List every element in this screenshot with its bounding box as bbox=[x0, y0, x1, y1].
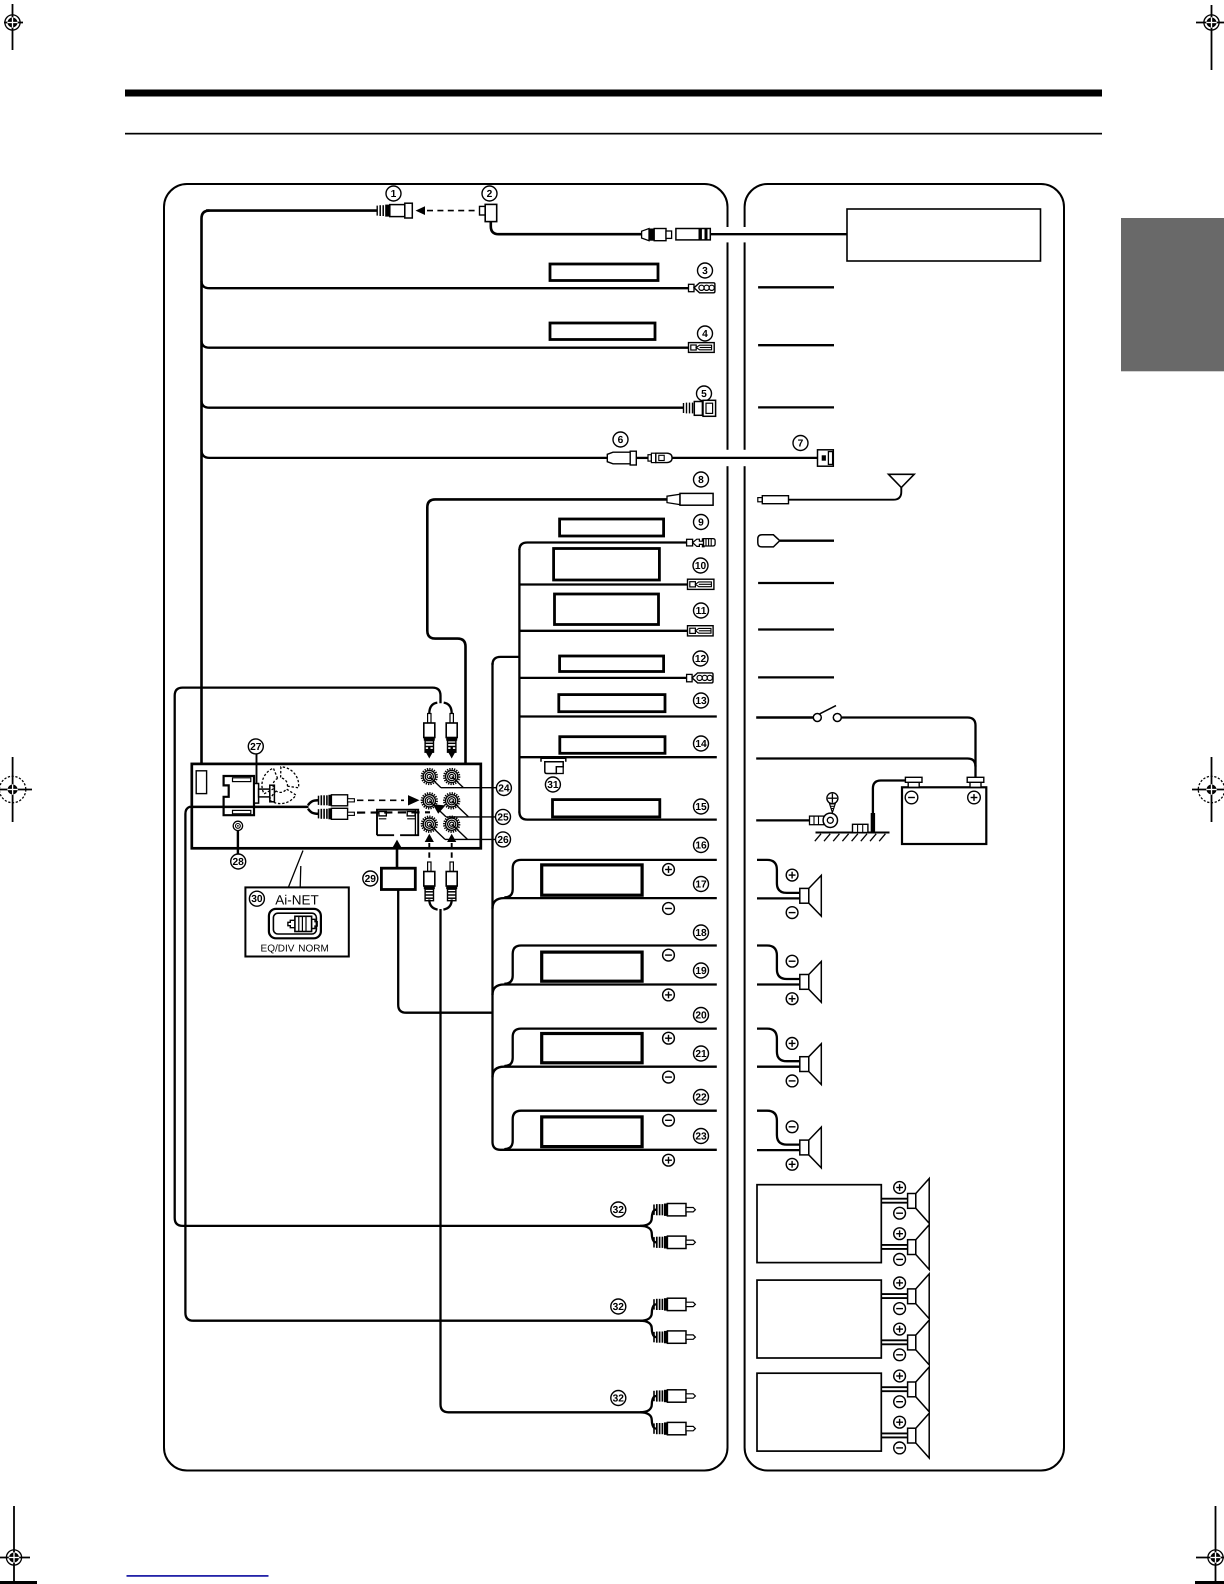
svg-text:Ai-NET: Ai-NET bbox=[275, 893, 319, 908]
wire 5 bbox=[202, 401, 684, 408]
arrow: cable 29 into socket bbox=[392, 840, 401, 870]
label 5 bbox=[697, 386, 712, 401]
connector: CD-changer plug head bbox=[270, 785, 275, 802]
polarity + amp 1 spk 1 bbox=[894, 1182, 906, 1194]
speaker: amp 3 spk 1 bbox=[908, 1367, 930, 1412]
pointer lines to label 24 bbox=[429, 777, 496, 788]
svg-text:24: 24 bbox=[498, 783, 510, 794]
dashed arrow: lower plug to jack 25R bbox=[357, 804, 446, 813]
label 15 bbox=[694, 799, 709, 814]
wire: constant power to battery + bbox=[756, 759, 975, 767]
wire: ignition lead to switch bbox=[756, 716, 813, 719]
speaker 2 bbox=[800, 962, 822, 1003]
footer corner bar left bbox=[0, 1581, 37, 1584]
wire: bus jog to speaker spine bbox=[493, 657, 520, 665]
connector 9: bullet male bbox=[687, 539, 716, 547]
polarity - speaker 2 bbox=[786, 955, 798, 967]
label 23 bbox=[694, 1129, 709, 1144]
box: Ai-NET detail 30 bbox=[245, 887, 348, 956]
wire: speaker pair 19 top bbox=[504, 946, 717, 984]
dashed arrow: upper plug to jack 25L bbox=[357, 795, 420, 805]
svg-text:16: 16 bbox=[695, 840, 707, 851]
svg-text:7: 7 bbox=[798, 438, 804, 449]
jack: RCA row 24 col 2 bbox=[444, 769, 459, 784]
pointer lines to label 25 bbox=[429, 801, 495, 817]
connector: output 1 RCA lower bbox=[654, 1236, 695, 1248]
box: item 29 cable box bbox=[381, 868, 415, 889]
wire: speaker pair 19 bottom bbox=[493, 985, 717, 996]
wire: output 1 Y-split bbox=[640, 1210, 656, 1243]
polarity - amp 2 spk 1 bbox=[894, 1303, 906, 1315]
svg-text:11: 11 bbox=[696, 606, 707, 617]
wire: speaker pair 17 top bbox=[504, 860, 717, 898]
polarity - speaker 4 bbox=[786, 1121, 798, 1133]
polarity + speaker 1 bbox=[786, 869, 798, 881]
wire: bus vertical V1 bbox=[518, 549, 520, 813]
jack: RCA row 24 col 1 bbox=[422, 769, 437, 784]
ring terminal bbox=[810, 813, 838, 827]
svg-text:14: 14 bbox=[695, 739, 707, 750]
wire: speaker pair 17 bottom bbox=[493, 898, 717, 909]
connector 7: vehicle power plug bbox=[818, 450, 834, 466]
box: item 4 label box bbox=[550, 323, 655, 340]
wire 4 bbox=[202, 341, 691, 348]
label 21 bbox=[694, 1046, 709, 1061]
wire 12 bbox=[519, 677, 687, 679]
wire: amp 3 speaker 2 pair bbox=[881, 1433, 907, 1437]
connector 1: antenna socket bbox=[377, 203, 412, 218]
connector: changer RCA plug upper bbox=[319, 795, 355, 806]
wire 8: to head unit bbox=[427, 499, 667, 764]
wire: speaker pair 23 top bbox=[504, 1111, 717, 1149]
wire 14 bbox=[519, 756, 716, 758]
label 4 bbox=[698, 326, 713, 341]
footer blue link line bbox=[127, 1575, 269, 1577]
label 29 bbox=[363, 871, 378, 886]
connector: CD-changer plug bar bbox=[254, 784, 258, 804]
label 10 bbox=[693, 558, 708, 573]
box: amplifier 3 bbox=[757, 1373, 881, 1451]
border gap at power lead bbox=[724, 450, 732, 466]
polarity + of wire 19 bbox=[663, 989, 675, 1001]
box: speaker 21 label box bbox=[542, 1034, 642, 1063]
svg-text:27: 27 bbox=[250, 742, 262, 753]
dashed leads: plugs to jacks 26 bbox=[429, 843, 451, 862]
polarity - amp 3 spk 2 bbox=[894, 1442, 906, 1454]
wire: output cable 1 (row 24) bbox=[175, 688, 644, 1226]
speaker: amp 1 spk 1 bbox=[908, 1179, 930, 1224]
label 28 bbox=[231, 854, 246, 869]
wire: speaker pair 21 bottom bbox=[493, 1067, 717, 1078]
speaker 1 bbox=[800, 875, 822, 916]
connector: plug below jack 26L bbox=[424, 862, 435, 901]
head unit cooling fan bbox=[262, 767, 299, 804]
wire: speaker 1 - lead bbox=[757, 897, 800, 899]
wire: ground lead bbox=[756, 819, 810, 821]
connector 12: bullet terminal bbox=[687, 673, 713, 683]
polarity - of wire 19 bbox=[663, 949, 675, 961]
arrow: plug into jack 24R bbox=[447, 747, 456, 759]
stub: vehicle lead A bbox=[758, 582, 834, 584]
label 9 bbox=[694, 515, 709, 530]
wire: output 3 Y-split bbox=[640, 1396, 656, 1429]
connector: vehicle antenna plug bbox=[758, 496, 789, 504]
jack: RCA row 25 col 2 bbox=[444, 793, 459, 808]
wire: antenna lead from plug 2 bbox=[491, 222, 642, 235]
pointer lines to label 26 bbox=[429, 824, 495, 839]
jack: RCA row 26 col 1 bbox=[422, 817, 437, 832]
svg-text:13: 13 bbox=[695, 696, 707, 707]
page margin grey tab bbox=[1121, 218, 1224, 371]
polarity - of wire 17 bbox=[663, 903, 675, 915]
box: item 3 label box bbox=[550, 264, 658, 281]
box: item 12 label box bbox=[560, 656, 664, 672]
box: item 9 label box bbox=[560, 519, 664, 536]
svg-text:19: 19 bbox=[695, 966, 707, 977]
svg-text:9: 9 bbox=[698, 517, 704, 528]
label 14 bbox=[694, 736, 709, 751]
wire 6 bbox=[202, 450, 609, 458]
label 1 bbox=[386, 186, 401, 201]
svg-text:30: 30 bbox=[251, 894, 263, 905]
polarity + amp 3 spk 1 bbox=[894, 1370, 906, 1382]
battery terminal post - bbox=[905, 777, 922, 787]
label 11 bbox=[694, 603, 709, 618]
connector 2: antenna plug (L-shape) bbox=[480, 204, 497, 221]
polarity - amp 2 spk 2 bbox=[894, 1349, 906, 1361]
wire: output cable 2 (row 25) bbox=[185, 807, 643, 1321]
wire: speaker 3 - lead bbox=[757, 1066, 800, 1068]
connector: output 1 RCA upper bbox=[654, 1204, 695, 1216]
wire 11 bbox=[519, 630, 688, 632]
wire 13 bbox=[519, 715, 716, 717]
connector 5: power plug bbox=[684, 400, 716, 416]
wire: speaker 2 + lead bbox=[757, 946, 800, 980]
wire: speaker pair 21 top bbox=[504, 1029, 717, 1066]
footer corner bar right bbox=[1195, 1581, 1224, 1584]
polarity - speaker 3 bbox=[786, 1075, 798, 1087]
box: item 14 label box bbox=[560, 737, 665, 754]
wire: lead 6 to 7 (crosses panels) bbox=[672, 457, 817, 459]
stub: vehicle lead 5 bbox=[758, 406, 834, 408]
connector: mating plug of 6 bbox=[648, 453, 672, 462]
jack: RCA row 25 col 1 bbox=[422, 793, 437, 808]
border gap at antenna lead bbox=[724, 227, 732, 242]
wire: main harness vertical bbox=[202, 211, 210, 772]
battery case bbox=[902, 787, 986, 844]
svg-text:NORM: NORM bbox=[298, 944, 329, 955]
battery terminal post + bbox=[967, 777, 984, 787]
wire: antenna lead to vehicle bbox=[710, 233, 847, 235]
wire: amp 2 speaker 2 pair bbox=[881, 1340, 907, 1344]
svg-text:26: 26 bbox=[497, 835, 509, 846]
antenna mast symbol bbox=[889, 474, 915, 487]
connector: output 2 RCA lower bbox=[654, 1331, 695, 1343]
polarity - amp 1 spk 1 bbox=[894, 1207, 906, 1219]
svg-text:23: 23 bbox=[695, 1131, 707, 1142]
box: speaker 23 label box bbox=[542, 1117, 642, 1147]
label 8 bbox=[694, 472, 709, 487]
label 24 bbox=[496, 781, 511, 796]
polarity - amp 1 spk 2 bbox=[894, 1254, 906, 1266]
stub: vehicle lead 4 bbox=[758, 344, 834, 346]
box: item 13 label box bbox=[559, 695, 665, 712]
wire: output 2 Y-split bbox=[640, 1304, 656, 1337]
svg-text:12: 12 bbox=[695, 654, 707, 665]
wire: amp 1 speaker 2 pair bbox=[881, 1245, 907, 1249]
svg-text:EQ/DIV: EQ/DIV bbox=[261, 944, 295, 955]
label 25 bbox=[496, 809, 511, 824]
wire: speaker spine bbox=[493, 663, 717, 1150]
svg-text:6: 6 bbox=[618, 435, 624, 446]
label 20 bbox=[694, 1008, 709, 1023]
svg-text:32: 32 bbox=[613, 1393, 625, 1404]
wire 9 bbox=[519, 543, 687, 551]
page rule: thin header line bbox=[125, 133, 1102, 135]
svg-text:8: 8 bbox=[698, 475, 704, 486]
wire: speaker 3 + lead bbox=[757, 1029, 800, 1062]
wire: speaker 2 - lead bbox=[757, 983, 800, 985]
polarity + of wire 21 bbox=[663, 1032, 675, 1044]
left panel frame bbox=[164, 184, 728, 1471]
stub: vehicle lead B bbox=[758, 628, 834, 630]
polarity - speaker 1 bbox=[786, 907, 798, 919]
box: speaker 19 label box bbox=[542, 952, 642, 981]
wire: switch to battery + bbox=[841, 718, 975, 778]
wire: changer RCA pigtail bbox=[192, 800, 319, 814]
svg-text:22: 22 bbox=[695, 1092, 707, 1103]
label 32 (2) bbox=[611, 1299, 626, 1314]
jack: RCA row 26 col 2 bbox=[444, 817, 459, 832]
connector: CD-changer plug stem bbox=[259, 789, 270, 797]
label 7 bbox=[793, 436, 808, 451]
polarity + amp 2 spk 1 bbox=[894, 1277, 906, 1289]
label 27 bbox=[248, 739, 263, 754]
label 12 bbox=[693, 651, 708, 666]
screw 28 on chassis bbox=[233, 821, 242, 830]
svg-text:15: 15 bbox=[695, 802, 707, 813]
battery + symbol bbox=[968, 791, 981, 804]
wire 10 bbox=[519, 583, 688, 585]
label 32 (3) bbox=[611, 1391, 626, 1406]
polarity - of wire 21 bbox=[663, 1071, 675, 1083]
polarity + amp 2 spk 2 bbox=[894, 1323, 906, 1335]
head unit antenna inlet bbox=[196, 771, 206, 794]
arrow: plug toward jack 26R bbox=[447, 834, 456, 842]
connector 6: plug body bbox=[607, 451, 636, 465]
polarity - of wire 23 bbox=[663, 1114, 675, 1126]
svg-text:17: 17 bbox=[695, 879, 707, 890]
remote sensor blob bbox=[758, 535, 780, 547]
wire: between 6 and mating plug bbox=[636, 457, 648, 459]
right panel frame bbox=[745, 184, 1064, 1471]
polarity + of wire 23 bbox=[663, 1154, 675, 1166]
label 31 bbox=[545, 777, 560, 792]
svg-text:29: 29 bbox=[365, 874, 377, 885]
fuse block on ground bbox=[853, 824, 868, 832]
label 6 bbox=[613, 432, 628, 447]
label 18 bbox=[694, 925, 709, 940]
svg-text:5: 5 bbox=[701, 389, 707, 400]
svg-text:25: 25 bbox=[497, 812, 509, 823]
polarity + amp 3 spk 2 bbox=[894, 1416, 906, 1428]
polarity + speaker 3 bbox=[786, 1038, 798, 1050]
label 32 (1) bbox=[611, 1202, 626, 1217]
speaker 3 bbox=[800, 1044, 822, 1085]
svg-text:4: 4 bbox=[702, 329, 708, 340]
wire: output cable 3 (row 26) bbox=[429, 900, 643, 1413]
speaker: amp 2 spk 1 bbox=[908, 1274, 930, 1319]
stub: vehicle lead C bbox=[758, 676, 834, 678]
wire: 29 cable to spine bbox=[398, 890, 492, 1013]
wire 15 bbox=[519, 812, 716, 820]
polarity - amp 3 spk 1 bbox=[894, 1396, 906, 1408]
svg-text:20: 20 bbox=[695, 1010, 707, 1021]
label 2 bbox=[482, 186, 497, 201]
box: amplifier 2 bbox=[757, 1280, 881, 1358]
connector 8: long plug bbox=[667, 493, 713, 505]
connector: output 3 RCA upper bbox=[654, 1390, 695, 1402]
polarity + speaker 4 bbox=[786, 1158, 798, 1170]
polarity + speaker 2 bbox=[786, 993, 798, 1005]
connector 10: spade female bbox=[688, 579, 714, 589]
svg-text:18: 18 bbox=[695, 928, 707, 939]
speaker: amp 1 spk 2 bbox=[908, 1225, 930, 1270]
wire: speaker 1 + lead bbox=[757, 860, 800, 893]
speaker: amp 2 spk 2 bbox=[908, 1320, 930, 1365]
svg-text:28: 28 bbox=[233, 857, 245, 868]
speaker 4 bbox=[800, 1127, 822, 1168]
connector: plug into jack 24L bbox=[424, 714, 435, 753]
page rule: thick header bar bbox=[125, 90, 1102, 97]
label 27 pointer bbox=[256, 754, 258, 785]
connector 4: spade terminal bbox=[689, 343, 715, 353]
wire: amp 1 speaker 1 pair bbox=[881, 1199, 907, 1203]
svg-text:32: 32 bbox=[613, 1205, 625, 1216]
svg-text:1: 1 bbox=[391, 189, 397, 200]
arrow: plug toward jack 26L bbox=[425, 834, 434, 842]
icon: Ai-NET switch bbox=[269, 909, 321, 938]
polarity + of wire 17 bbox=[663, 864, 675, 876]
connector: output 3 RCA lower bbox=[654, 1422, 695, 1434]
svg-text:21: 21 bbox=[695, 1049, 707, 1060]
svg-text:31: 31 bbox=[547, 780, 559, 791]
connector: ISO harness socket bbox=[224, 776, 254, 815]
connector: plug below jack 26R bbox=[446, 862, 457, 901]
connector 31: fuse holder bbox=[541, 758, 566, 773]
label 3 bbox=[698, 263, 713, 278]
connector: changer RCA plug lower bbox=[319, 808, 355, 819]
stub: vehicle lead 3 bbox=[758, 286, 834, 288]
connector 3: bullet terminal bbox=[689, 283, 715, 293]
wire: amp 3 speaker 1 pair bbox=[881, 1387, 907, 1391]
box: item 15 label box bbox=[553, 800, 660, 817]
switch: ignition key bbox=[813, 706, 841, 722]
box: speaker 17 label box bbox=[542, 865, 642, 895]
wire: speaker 4 - lead bbox=[757, 1149, 800, 1151]
label 16 bbox=[694, 838, 709, 853]
svg-text:10: 10 bbox=[695, 561, 707, 572]
label 19 bbox=[694, 963, 709, 978]
dashed arrow: plug 2 into socket 1 bbox=[416, 206, 478, 215]
ground screw bbox=[827, 793, 838, 813]
battery - symbol bbox=[905, 791, 918, 804]
label 17 bbox=[694, 877, 709, 892]
wire: amp 2 speaker 1 pair bbox=[881, 1294, 907, 1298]
head unit chassis bbox=[192, 764, 481, 848]
connector: output 2 RCA upper bbox=[654, 1298, 695, 1310]
pointer lines to Ai-NET detail bbox=[289, 851, 304, 888]
label 13 bbox=[694, 693, 709, 708]
label 30 bbox=[249, 891, 264, 906]
wire 1: to antenna socket bbox=[206, 209, 377, 212]
svg-text:3: 3 bbox=[702, 266, 708, 277]
box: vehicle antenna label box bbox=[847, 209, 1041, 261]
svg-text:2: 2 bbox=[487, 189, 493, 200]
arrow: plug into jack 24L bbox=[425, 747, 434, 759]
label 28 pointer bbox=[237, 831, 239, 854]
wire: vehicle antenna lead bbox=[789, 488, 902, 500]
connector: antenna extension barrel A bbox=[642, 229, 672, 241]
box: item 10 label box bbox=[554, 549, 660, 581]
svg-text:32: 32 bbox=[613, 1302, 625, 1313]
wire: battery - to ground bbox=[873, 781, 906, 832]
box: amplifier 1 bbox=[757, 1185, 881, 1263]
connector 11: spade female bbox=[688, 626, 714, 636]
connector: antenna extension barrel B bbox=[676, 229, 710, 240]
wire: speaker 4 + lead bbox=[757, 1111, 800, 1145]
connector: plug into jack 24R bbox=[446, 714, 457, 753]
label 22 bbox=[694, 1090, 709, 1105]
wire 3 bbox=[202, 281, 690, 288]
speaker: amp 3 spk 2 bbox=[908, 1413, 930, 1458]
ground hatch bbox=[815, 833, 890, 842]
label 26 bbox=[496, 832, 511, 847]
polarity + amp 1 spk 2 bbox=[894, 1228, 906, 1240]
connector: Ai-NET socket 29 on chassis bbox=[377, 810, 418, 836]
box: item 11 label box bbox=[555, 594, 659, 625]
